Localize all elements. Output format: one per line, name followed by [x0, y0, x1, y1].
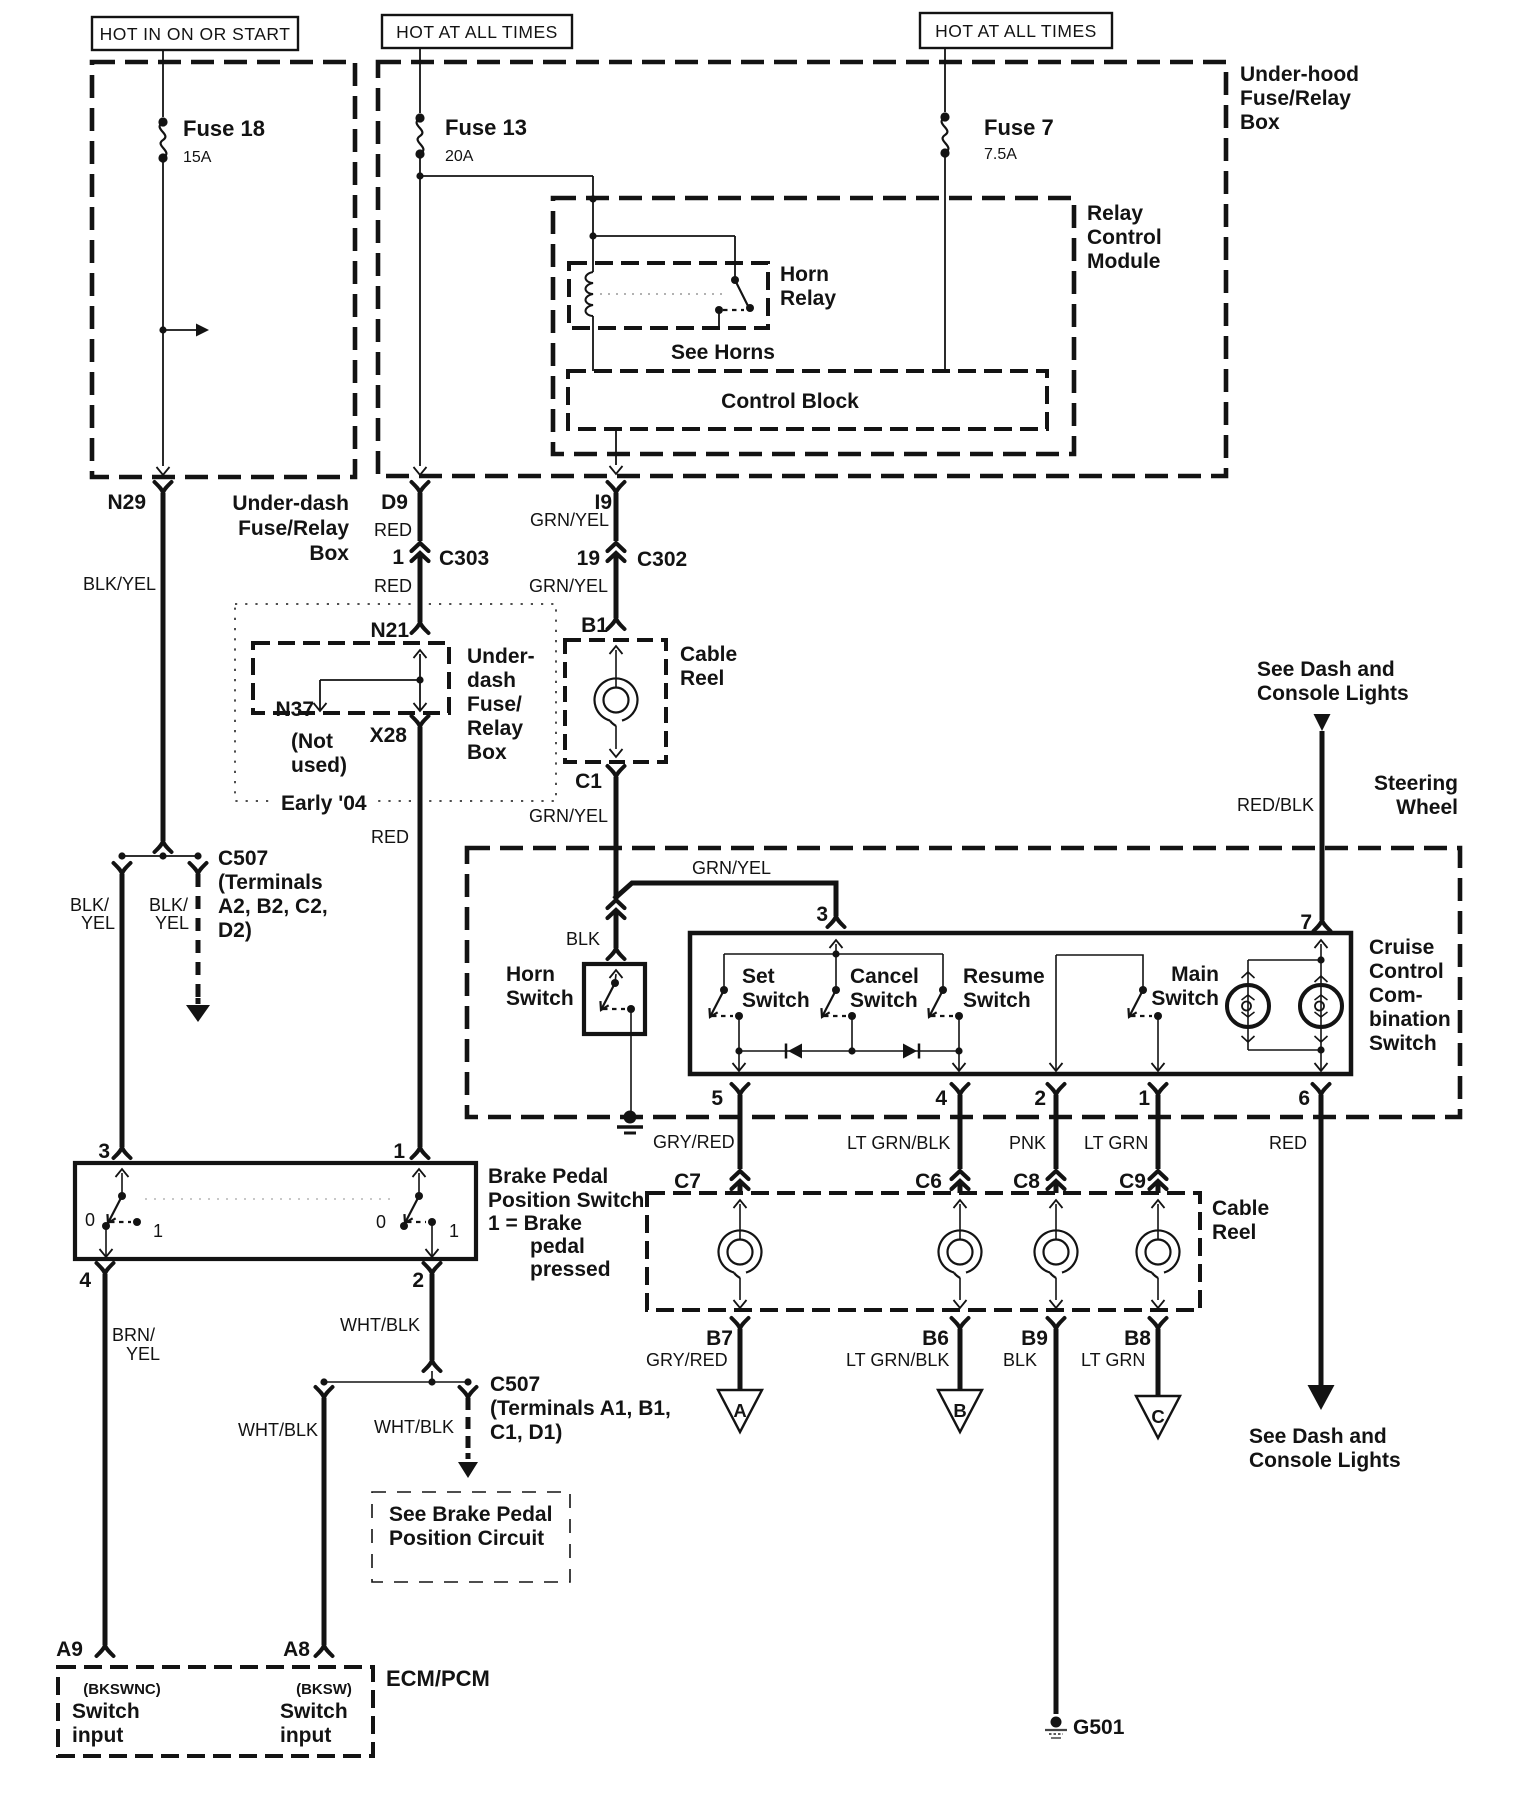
svg-text:Fuse 13: Fuse 13	[445, 115, 527, 140]
svg-text:1: 1	[153, 1221, 163, 1241]
svg-text:Set: Set	[742, 965, 775, 988]
svg-text:Switch: Switch	[72, 1700, 140, 1723]
svg-text:Relay: Relay	[467, 717, 523, 740]
svg-text:HOT AT ALL TIMES: HOT AT ALL TIMES	[396, 22, 558, 42]
svg-text:C: C	[1151, 1406, 1164, 1427]
svg-text:Fuse/Relay: Fuse/Relay	[238, 517, 349, 540]
svg-text:C302: C302	[637, 548, 687, 571]
svg-text:pedal: pedal	[530, 1235, 585, 1258]
svg-text:B: B	[953, 1400, 966, 1421]
svg-text:15A: 15A	[183, 149, 212, 166]
svg-text:WHT/BLK: WHT/BLK	[238, 1420, 318, 1440]
svg-text:2: 2	[412, 1269, 424, 1292]
svg-text:BLK/: BLK/	[149, 895, 188, 915]
svg-text:Box: Box	[467, 741, 507, 764]
svg-text:Under-hood: Under-hood	[1240, 63, 1359, 86]
svg-text:Control: Control	[1087, 226, 1162, 249]
svg-text:(Terminals A1, B1,: (Terminals A1, B1,	[490, 1397, 671, 1420]
svg-text:C8: C8	[1013, 1170, 1040, 1193]
svg-text:0: 0	[376, 1212, 386, 1232]
svg-text:Position Circuit: Position Circuit	[389, 1527, 544, 1550]
svg-text:0: 0	[85, 1210, 95, 1230]
svg-text:RED: RED	[1269, 1133, 1307, 1153]
svg-text:bination: bination	[1369, 1008, 1451, 1031]
svg-text:Position Switch: Position Switch	[488, 1189, 644, 1212]
svg-text:A: A	[733, 1400, 746, 1421]
svg-text:RED: RED	[371, 827, 409, 847]
svg-text:Relay: Relay	[1087, 202, 1143, 225]
svg-text:1: 1	[392, 546, 404, 569]
svg-text:(Not: (Not	[291, 730, 333, 753]
svg-text:Reel: Reel	[680, 667, 724, 690]
svg-text:Wheel: Wheel	[1396, 796, 1458, 819]
svg-text:1: 1	[1138, 1087, 1150, 1110]
svg-text:Fuse 7: Fuse 7	[984, 115, 1054, 140]
svg-text:pressed: pressed	[530, 1258, 611, 1281]
svg-text:LT GRN: LT GRN	[1084, 1133, 1148, 1153]
svg-text:A8: A8	[283, 1638, 310, 1661]
svg-text:YEL: YEL	[155, 913, 189, 933]
svg-text:Fuse/Relay: Fuse/Relay	[1240, 87, 1351, 110]
svg-text:B1: B1	[581, 614, 608, 637]
svg-text:See Dash and: See Dash and	[1249, 1425, 1387, 1448]
svg-text:dash: dash	[467, 669, 516, 692]
svg-text:3: 3	[98, 1140, 110, 1163]
svg-text:C303: C303	[439, 547, 489, 570]
svg-text:Switch: Switch	[850, 989, 918, 1012]
svg-text:BLK/: BLK/	[70, 895, 109, 915]
svg-text:LT GRN/BLK: LT GRN/BLK	[846, 1350, 949, 1370]
svg-text:(BKSW): (BKSW)	[296, 1681, 352, 1698]
svg-text:Under-dash: Under-dash	[232, 492, 349, 515]
svg-text:Cable: Cable	[680, 643, 737, 666]
svg-text:1: 1	[393, 1140, 405, 1163]
svg-text:Brake Pedal: Brake Pedal	[488, 1165, 608, 1188]
svg-text:1: 1	[449, 1221, 459, 1241]
svg-text:7.5A: 7.5A	[984, 146, 1017, 163]
svg-text:N37: N37	[275, 698, 314, 721]
svg-text:ECM/PCM: ECM/PCM	[386, 1666, 490, 1691]
svg-text:GRN/YEL: GRN/YEL	[529, 576, 608, 596]
svg-text:3: 3	[816, 903, 828, 926]
svg-text:C507: C507	[490, 1373, 540, 1396]
svg-text:1 = Brake: 1 = Brake	[488, 1212, 582, 1235]
svg-text:Switch: Switch	[963, 989, 1031, 1012]
svg-text:Steering: Steering	[1374, 772, 1458, 795]
svg-text:YEL: YEL	[126, 1344, 160, 1364]
svg-text:BRN/: BRN/	[112, 1325, 155, 1345]
svg-text:5: 5	[711, 1087, 723, 1110]
svg-text:Fuse 18: Fuse 18	[183, 116, 265, 141]
svg-text:Resume: Resume	[963, 965, 1045, 988]
svg-text:B8: B8	[1124, 1327, 1151, 1350]
svg-text:Switch: Switch	[280, 1700, 348, 1723]
svg-text:N21: N21	[370, 619, 409, 642]
svg-text:Under-: Under-	[467, 645, 535, 668]
svg-text:A2, B2, C2,: A2, B2, C2,	[218, 895, 328, 918]
svg-text:Switch: Switch	[506, 987, 574, 1010]
svg-text:PNK: PNK	[1009, 1133, 1046, 1153]
svg-text:See Horns: See Horns	[671, 341, 775, 364]
svg-text:Switch: Switch	[742, 989, 810, 1012]
svg-text:Horn: Horn	[506, 963, 555, 986]
svg-text:B9: B9	[1021, 1327, 1048, 1350]
svg-text:Reel: Reel	[1212, 1221, 1256, 1244]
svg-text:Main: Main	[1171, 963, 1219, 986]
svg-text:B6: B6	[922, 1327, 949, 1350]
svg-text:YEL: YEL	[81, 913, 115, 933]
svg-text:HOT IN ON OR START: HOT IN ON OR START	[100, 24, 291, 44]
svg-text:(Terminals: (Terminals	[218, 871, 323, 894]
svg-text:4: 4	[79, 1269, 91, 1292]
svg-text:GRN/YEL: GRN/YEL	[530, 510, 609, 530]
svg-text:GRN/YEL: GRN/YEL	[692, 858, 771, 878]
svg-text:BLK: BLK	[1003, 1350, 1037, 1370]
svg-text:See Dash and: See Dash and	[1257, 658, 1395, 681]
svg-text:RED: RED	[374, 576, 412, 596]
svg-text:4: 4	[935, 1087, 947, 1110]
svg-text:Control Block: Control Block	[721, 390, 859, 413]
svg-text:C1: C1	[575, 770, 602, 793]
svg-text:Relay: Relay	[780, 287, 836, 310]
svg-text:input: input	[280, 1724, 331, 1747]
svg-text:RED: RED	[374, 520, 412, 540]
svg-text:input: input	[72, 1724, 123, 1747]
svg-text:Box: Box	[1240, 111, 1280, 134]
svg-text:A9: A9	[56, 1638, 83, 1661]
svg-text:BLK/YEL: BLK/YEL	[83, 574, 156, 594]
svg-text:GRY/RED: GRY/RED	[653, 1132, 735, 1152]
svg-text:G501: G501	[1073, 1716, 1125, 1739]
svg-text:WHT/BLK: WHT/BLK	[340, 1315, 420, 1335]
svg-text:6: 6	[1298, 1087, 1310, 1110]
svg-text:X28: X28	[370, 724, 408, 747]
svg-text:Cancel: Cancel	[850, 965, 919, 988]
svg-text:Horn: Horn	[780, 263, 829, 286]
svg-text:7: 7	[1300, 911, 1312, 934]
svg-text:LT GRN/BLK: LT GRN/BLK	[847, 1133, 950, 1153]
svg-text:RED/BLK: RED/BLK	[1237, 795, 1314, 815]
svg-text:Com-: Com-	[1369, 984, 1423, 1007]
svg-text:BLK: BLK	[566, 929, 600, 949]
svg-text:C9: C9	[1119, 1170, 1146, 1193]
svg-text:Switch: Switch	[1151, 987, 1219, 1010]
svg-text:Console Lights: Console Lights	[1249, 1449, 1401, 1472]
svg-text:Box: Box	[309, 542, 349, 565]
svg-text:Console Lights: Console Lights	[1257, 682, 1409, 705]
svg-text:WHT/BLK: WHT/BLK	[374, 1417, 454, 1437]
svg-text:D2): D2)	[218, 919, 252, 942]
svg-text:Cruise: Cruise	[1369, 936, 1434, 959]
svg-text:HOT AT ALL TIMES: HOT AT ALL TIMES	[935, 21, 1097, 41]
svg-text:20A: 20A	[445, 148, 474, 165]
svg-text:GRY/RED: GRY/RED	[646, 1350, 728, 1370]
svg-text:C507: C507	[218, 847, 268, 870]
svg-text:(BKSWNC): (BKSWNC)	[83, 1681, 160, 1698]
svg-text:2: 2	[1034, 1087, 1046, 1110]
svg-text:Control: Control	[1369, 960, 1444, 983]
svg-text:Early '04: Early '04	[281, 792, 367, 815]
svg-text:N29: N29	[107, 491, 146, 514]
svg-text:GRN/YEL: GRN/YEL	[529, 806, 608, 826]
svg-text:C6: C6	[915, 1170, 942, 1193]
svg-text:used): used)	[291, 754, 347, 777]
svg-text:LT GRN: LT GRN	[1081, 1350, 1145, 1370]
svg-text:Cable: Cable	[1212, 1197, 1269, 1220]
svg-text:Switch: Switch	[1369, 1032, 1437, 1055]
svg-text:See Brake Pedal: See Brake Pedal	[389, 1503, 552, 1526]
svg-text:D9: D9	[381, 491, 408, 514]
svg-text:19: 19	[577, 547, 600, 570]
svg-text:C7: C7	[674, 1170, 701, 1193]
svg-text:B7: B7	[706, 1327, 733, 1350]
svg-text:Fuse/: Fuse/	[467, 693, 522, 716]
svg-text:C1, D1): C1, D1)	[490, 1421, 562, 1444]
svg-text:Module: Module	[1087, 250, 1161, 273]
